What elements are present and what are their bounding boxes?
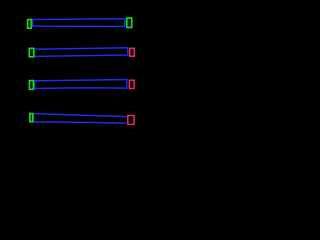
bar B1 (blue wireframe link, row 1) [33, 19, 125, 27]
start marker G3 (green box, row 3 left) [29, 81, 33, 90]
bar B3 (blue wireframe link, row 3) [35, 80, 127, 89]
end marker R3 (red box, row 3 right) [129, 80, 134, 88]
end marker G1b (green box, row 1 right) [127, 18, 132, 27]
end marker R4 (red box, row 4 right) [128, 116, 134, 125]
bar B2 (blue wireframe link, row 2) [35, 48, 128, 57]
start marker G1 (green box, row 1 left) [28, 20, 32, 29]
end marker R2 (red box, row 2 right) [130, 48, 135, 56]
start marker G4 (green box, row 4 left) [30, 114, 33, 122]
bar B4 (blue wireframe link, row 4) [33, 114, 126, 124]
start marker G2 (green box, row 2 left) [29, 48, 34, 56]
